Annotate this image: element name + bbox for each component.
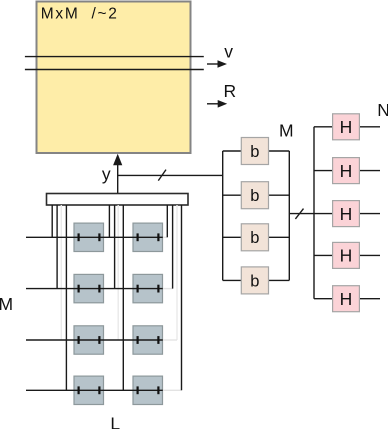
top plate bar <box>47 194 189 206</box>
cell C12 <box>133 223 163 251</box>
capacitor plates C22 <box>138 285 159 293</box>
buffer b1 <box>241 138 268 165</box>
svg-text:v: v <box>224 42 233 62</box>
capacitor plates C12 <box>138 233 159 241</box>
wire row line 2 <box>26 288 163 290</box>
light column wire row3 left <box>60 205 62 340</box>
wire b2 stubs <box>223 194 290 196</box>
svg-text:H: H <box>340 246 353 266</box>
cell C41 <box>74 376 104 404</box>
arrow v <box>207 60 227 68</box>
buffer b4 <box>241 267 268 294</box>
light column wire row3 right <box>176 205 178 340</box>
cell C22 <box>133 274 163 302</box>
column wire row2 middle <box>114 205 116 289</box>
svg-text:H: H <box>340 161 353 181</box>
neuron H2 <box>333 158 360 184</box>
cell C42 <box>133 376 163 404</box>
wire H5 stubs <box>314 298 380 300</box>
svg-text:H: H <box>340 204 353 224</box>
capacitor plates C11 <box>79 233 100 241</box>
wire word-line 2 <box>25 69 204 71</box>
wire H3 right stub <box>359 213 380 215</box>
arrow R <box>207 100 227 108</box>
svg-text:H: H <box>340 289 353 309</box>
neuron H4 <box>333 242 360 268</box>
svg-text:b: b <box>250 143 259 161</box>
capacitor plates C42 <box>138 386 159 394</box>
cell C31 <box>74 326 104 354</box>
column wire row1 right <box>166 205 168 237</box>
neuron H5 <box>333 286 360 312</box>
wire H4 stubs <box>314 254 380 256</box>
bus-width slash on y bus <box>158 170 166 181</box>
column wire row2 right <box>172 205 174 289</box>
wire row line 4 <box>26 389 163 391</box>
faint stub row1 <box>163 236 168 238</box>
faint stub row3 <box>163 339 177 341</box>
svg-text:L: L <box>110 413 120 429</box>
wire b4 stubs <box>223 279 290 281</box>
crossbar array block U1 (MxM /~2) <box>37 2 191 154</box>
wire row line 1 <box>26 236 163 238</box>
faint stub row2 <box>163 288 173 290</box>
column wire row2 left <box>56 205 58 289</box>
H column bus <box>313 127 315 299</box>
capacitor plates C32 <box>138 336 159 344</box>
svg-text:b: b <box>250 187 259 205</box>
column wire row1 left <box>51 205 53 237</box>
wire y input arrow <box>113 154 122 194</box>
light column wire row3 middle <box>117 205 119 340</box>
capacitor plates C31 <box>79 336 100 344</box>
faint stub row4 <box>163 389 182 391</box>
b column left bus <box>222 151 224 280</box>
wire b to H bus <box>289 213 332 215</box>
buffer b2 <box>241 182 268 209</box>
svg-text:MxM /~2: MxM /~2 <box>41 6 119 23</box>
capacitor plates C21 <box>79 285 100 293</box>
cell C11 <box>74 223 104 251</box>
svg-text:N: N <box>377 100 388 120</box>
svg-text:H: H <box>340 117 353 137</box>
cell C32 <box>133 326 163 354</box>
wire word-line 1 <box>25 56 204 58</box>
capacitor plates C41 <box>79 386 100 394</box>
cell C21 <box>74 274 104 302</box>
wire H1 stubs <box>314 126 380 128</box>
column wire row4 right <box>181 205 183 390</box>
column wire row4 middle <box>122 205 124 390</box>
neuron H1 <box>333 114 360 140</box>
wire row line 3 <box>26 339 163 341</box>
column wire row1 middle <box>108 205 110 237</box>
svg-text:b: b <box>250 229 259 247</box>
wire y bus to b column <box>118 174 223 176</box>
svg-text:y: y <box>102 164 111 184</box>
svg-text:M: M <box>0 294 13 314</box>
column wire row4 left <box>65 205 67 390</box>
b column right bus <box>288 151 290 280</box>
neuron H3 <box>333 201 360 227</box>
svg-text:R: R <box>223 81 236 101</box>
wire b1 stubs <box>223 150 290 152</box>
wire b3 stubs <box>223 236 290 238</box>
bus-width slash on b-H wire <box>295 209 303 219</box>
svg-text:M: M <box>279 120 294 140</box>
wire H2 stubs <box>314 170 380 172</box>
buffer b3 <box>241 224 268 251</box>
svg-text:b: b <box>250 272 259 290</box>
